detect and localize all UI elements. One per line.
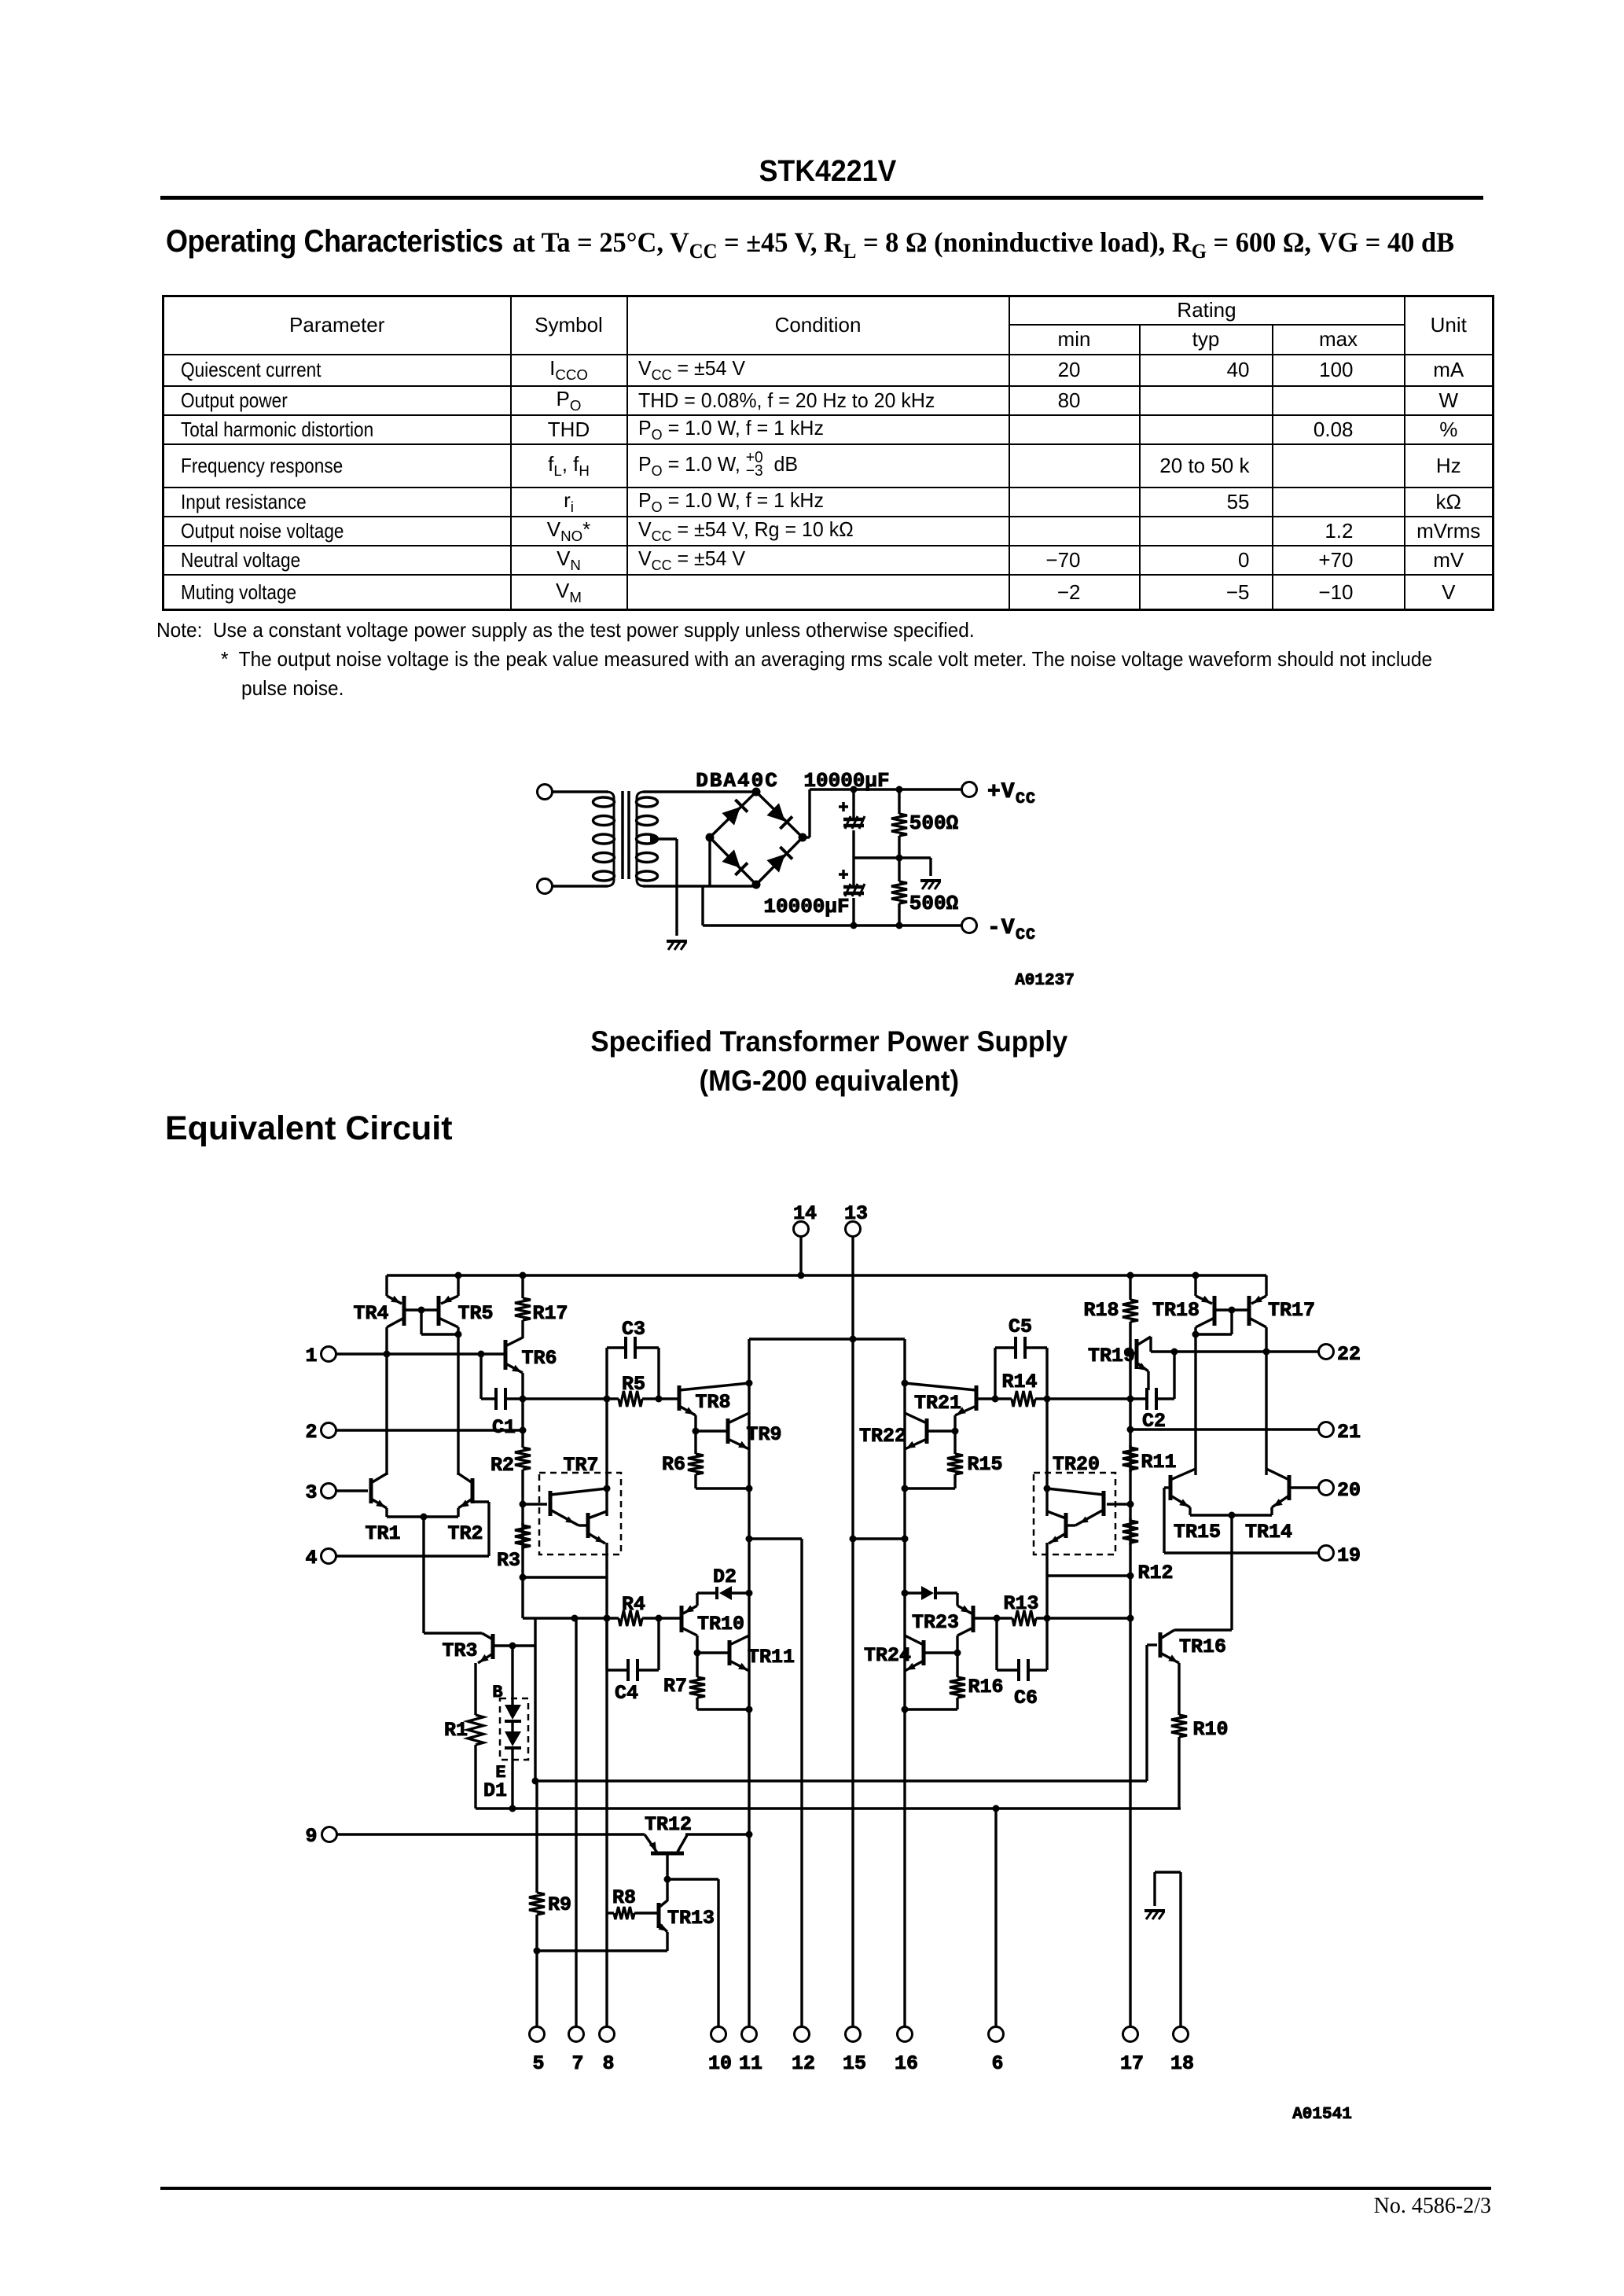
svg-text:TR3: TR3 <box>442 1639 477 1662</box>
svg-text:R10: R10 <box>1192 1718 1228 1741</box>
svg-text:TR15: TR15 <box>1174 1521 1221 1544</box>
svg-text:TR20: TR20 <box>1053 1453 1100 1476</box>
svg-text:R12: R12 <box>1137 1562 1173 1584</box>
svg-text:R11: R11 <box>1141 1451 1176 1474</box>
svg-text:7: 7 <box>571 2052 583 2075</box>
svg-text:+V: +V <box>987 780 1016 804</box>
svg-text:R13: R13 <box>1003 1592 1038 1615</box>
svg-text:D2: D2 <box>713 1566 737 1588</box>
svg-text:C1: C1 <box>492 1416 516 1439</box>
svg-text:TR13: TR13 <box>667 1907 715 1930</box>
svg-text:CC: CC <box>1016 790 1036 808</box>
svg-text:15: 15 <box>843 2052 866 2075</box>
svg-text:TR21: TR21 <box>914 1392 961 1415</box>
svg-text:500Ω: 500Ω <box>909 811 958 835</box>
svg-text:R9: R9 <box>548 1893 571 1916</box>
svg-text:6: 6 <box>991 2052 1003 2075</box>
svg-text:R15: R15 <box>967 1453 1002 1476</box>
svg-text:R3: R3 <box>497 1549 520 1572</box>
svg-text:TR2: TR2 <box>447 1522 483 1545</box>
svg-text:19: 19 <box>1337 1544 1361 1567</box>
svg-text:13: 13 <box>844 1202 868 1225</box>
svg-text:R17: R17 <box>532 1302 568 1325</box>
svg-text:R14: R14 <box>1001 1371 1037 1393</box>
svg-text:17: 17 <box>1120 2052 1144 2075</box>
svg-text:10: 10 <box>708 2052 732 2075</box>
svg-text:TR5: TR5 <box>457 1302 493 1325</box>
svg-text:C4: C4 <box>615 1682 638 1705</box>
svg-text:TR9: TR9 <box>746 1423 781 1446</box>
svg-text:R2: R2 <box>491 1454 514 1477</box>
svg-text:TR11: TR11 <box>748 1646 795 1669</box>
svg-text:20: 20 <box>1337 1479 1361 1502</box>
svg-text:14: 14 <box>793 1202 817 1225</box>
svg-text:D1: D1 <box>483 1779 507 1802</box>
svg-text:TR22: TR22 <box>859 1425 906 1448</box>
svg-text:B: B <box>492 1683 502 1702</box>
svg-text:11: 11 <box>739 2052 762 2075</box>
svg-text:TR1: TR1 <box>365 1522 400 1545</box>
svg-text:21: 21 <box>1337 1421 1361 1444</box>
svg-text:CC: CC <box>1016 926 1036 944</box>
svg-text:R8: R8 <box>612 1886 636 1909</box>
svg-text:TR16: TR16 <box>1179 1636 1226 1658</box>
svg-text:TR14: TR14 <box>1245 1521 1292 1544</box>
svg-text:R18: R18 <box>1083 1299 1119 1322</box>
svg-text:C5: C5 <box>1009 1315 1032 1338</box>
svg-text:2: 2 <box>305 1421 317 1444</box>
svg-text:9: 9 <box>305 1825 317 1848</box>
svg-text:TR8: TR8 <box>695 1391 730 1414</box>
svg-text:C6: C6 <box>1014 1687 1038 1709</box>
svg-text:TR18: TR18 <box>1152 1299 1200 1322</box>
svg-text:5: 5 <box>532 2052 544 2075</box>
svg-text:TR10: TR10 <box>697 1613 744 1636</box>
svg-text:A01541: A01541 <box>1292 2106 1352 2124</box>
svg-text:10000µF: 10000µF <box>803 769 889 793</box>
svg-text:TR4: TR4 <box>353 1302 388 1325</box>
svg-text:TR17: TR17 <box>1268 1299 1315 1322</box>
svg-text:12: 12 <box>792 2052 815 2075</box>
svg-text:8: 8 <box>602 2052 614 2075</box>
svg-text:R7: R7 <box>663 1675 687 1698</box>
svg-text:22: 22 <box>1337 1343 1361 1366</box>
svg-text:TR7: TR7 <box>563 1454 598 1477</box>
svg-text:TR23: TR23 <box>912 1611 959 1634</box>
svg-text:TR19: TR19 <box>1088 1345 1135 1367</box>
svg-text:TR12: TR12 <box>645 1813 692 1836</box>
svg-text:16: 16 <box>895 2052 918 2075</box>
svg-text:R16: R16 <box>968 1676 1003 1698</box>
svg-text:-V: -V <box>987 916 1016 940</box>
svg-text:R4: R4 <box>622 1593 645 1616</box>
svg-text:R6: R6 <box>662 1453 685 1476</box>
svg-text:R5: R5 <box>622 1373 645 1396</box>
svg-text:4: 4 <box>305 1547 317 1569</box>
svg-text:A01237: A01237 <box>1015 972 1075 990</box>
svg-text:TR24: TR24 <box>864 1644 911 1667</box>
svg-text:R1: R1 <box>444 1719 468 1742</box>
svg-text:10000µF: 10000µF <box>763 895 849 918</box>
svg-text:C3: C3 <box>622 1318 645 1341</box>
svg-text:500Ω: 500Ω <box>909 892 958 915</box>
svg-text:TR6: TR6 <box>521 1347 557 1370</box>
svg-text:3: 3 <box>305 1481 317 1504</box>
svg-text:18: 18 <box>1170 2052 1194 2075</box>
svg-text:1: 1 <box>305 1345 317 1367</box>
svg-text:DBA40C: DBA40C <box>696 769 779 793</box>
